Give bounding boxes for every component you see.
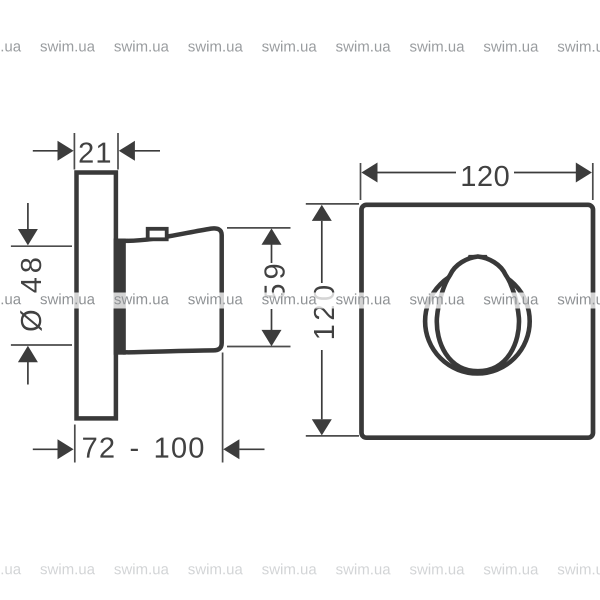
dim 120 left: dimension line and arrows [312,205,332,436]
dim diameter 48 label (rotated) [20,258,42,331]
dim 59: dimension line and arrows [262,228,282,346]
tab on knob side view [148,229,167,240]
tab notch on knob top [465,255,490,263]
dim 120 top: extension lines [361,163,593,200]
watermark band middle [0,293,600,309]
dim 21: dimension lines and arrows [33,141,160,161]
dim 21 label [80,142,111,162]
dim diameter 48: extension lines [11,246,72,345]
dim 120 top: dimension line and arrows [361,163,592,183]
wall plate side view [77,173,116,419]
knob side view body [123,228,221,352]
dim 120 left label (rotated) [314,286,335,338]
knob circle front view [425,269,530,374]
dim 59 label (rotated) [264,265,285,299]
dim 120 left: extension lines [306,204,359,436]
dim 72-100: dimension line and arrows [33,439,265,459]
dim diameter 48: dimension line and arrows [18,203,38,385]
dim 72-100: extension lines [75,353,223,463]
watermark band top [0,40,600,56]
dim 59: extension lines [227,228,291,347]
dim 21: extension lines [74,133,118,170]
escutcheon square plate front view [362,205,594,438]
dim 72-100 label [83,437,203,458]
dim 120 top label [463,166,509,187]
knob egg outline front view [437,257,519,372]
watermark band bottom (faint) [0,563,600,579]
junction band between plate and knob side view [114,239,126,355]
